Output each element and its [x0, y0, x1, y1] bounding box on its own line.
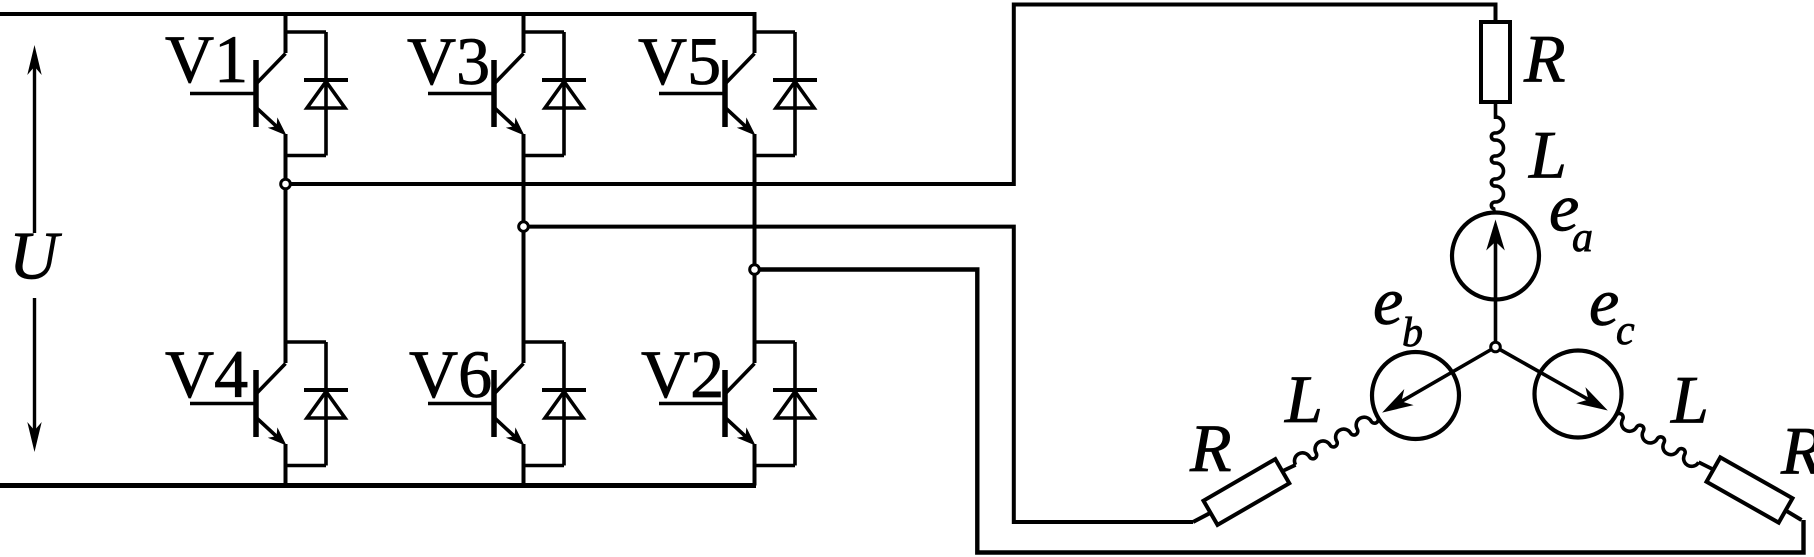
EMF source e_a circle: [1452, 213, 1539, 300]
EMF e_a arrow: [1486, 220, 1505, 343]
transistor V1: [190, 12, 326, 180]
svg-text:R: R: [1189, 410, 1232, 486]
freewheeling diode of V5: [753, 32, 818, 156]
EMF e_b arrow: [1382, 350, 1491, 413]
svg-text:e: e: [1373, 263, 1403, 339]
DC bus top rail: [0, 12, 756, 16]
resistor R phase c: [1707, 457, 1793, 522]
transistor V2: [659, 270, 795, 486]
svg-text:L: L: [1284, 361, 1323, 437]
output node of leg V3/V6: [519, 222, 529, 232]
transistor V4: [190, 184, 326, 486]
freewheeling diode of V2: [753, 342, 818, 466]
svg-text:V6: V6: [409, 336, 492, 412]
svg-text:R: R: [1523, 21, 1566, 97]
svg-text:a: a: [1572, 215, 1593, 261]
svg-text:V4: V4: [165, 336, 248, 412]
EMF source e_b circle: [1372, 352, 1459, 439]
EMF e_c arrow: [1500, 350, 1608, 411]
svg-text:V3: V3: [407, 23, 490, 99]
svg-text:b: b: [1402, 310, 1423, 356]
inductor L phase c: [1616, 413, 1699, 466]
resistor R phase b: [1204, 459, 1290, 525]
wire R to corner phase b: [1193, 513, 1211, 522]
output node of leg V1/V4: [281, 179, 291, 189]
transistor V5: [659, 12, 795, 265]
transistor V6: [428, 227, 564, 486]
transistor V3: [428, 12, 564, 222]
wire phase c: leg V5/V2 node to load: [759, 270, 1803, 553]
svg-text:e: e: [1589, 264, 1619, 340]
freewheeling diode of V4: [284, 342, 349, 466]
freewheeling diode of V3: [522, 32, 587, 156]
DC bus bottom rail: [0, 483, 756, 488]
svg-text:V5: V5: [638, 23, 721, 99]
wire L to R phase c: [1699, 462, 1714, 469]
wire phase a: leg V1/V4 node to load: [290, 5, 1495, 185]
freewheeling diode of V1: [284, 32, 349, 156]
wire L to R phase b: [1282, 465, 1295, 471]
svg-text:V1: V1: [165, 21, 248, 97]
EMF source e_c circle: [1535, 351, 1622, 438]
svg-text:c: c: [1616, 308, 1635, 354]
wire R to corner phase c: [1786, 510, 1802, 520]
svg-text:U: U: [9, 218, 62, 294]
svg-text:R: R: [1780, 413, 1814, 489]
inductor L phase b: [1294, 417, 1378, 465]
inductor L phase a: [1491, 117, 1503, 209]
star (neutral) node: [1491, 342, 1501, 352]
wire R to L phase a: [1494, 100, 1498, 119]
svg-text:V2: V2: [641, 336, 724, 412]
output node of leg V5/V2: [750, 265, 760, 275]
svg-text:L: L: [1670, 362, 1709, 438]
resistor R phase a: [1481, 22, 1510, 102]
freewheeling diode of V6: [522, 342, 587, 466]
DC voltage arrow U (double-headed): [27, 45, 41, 452]
wire phase b: leg V3/V6 node to load: [528, 227, 1193, 522]
